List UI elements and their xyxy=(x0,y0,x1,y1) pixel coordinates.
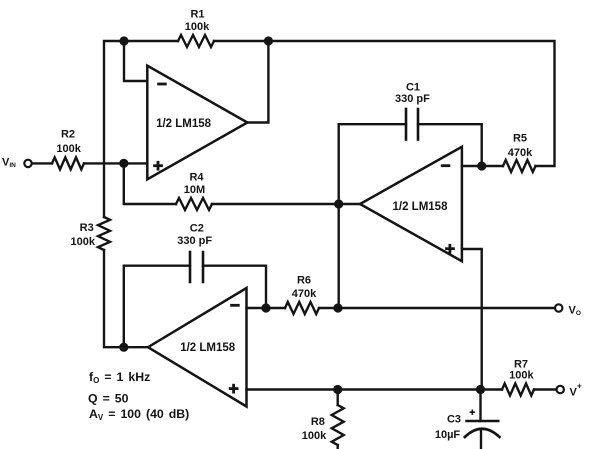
node: U3 output / C2 / R3 junction xyxy=(119,343,128,352)
wire: feedback vertical lower to U3 output xyxy=(104,250,148,347)
wire: C2 right lead down to R6 left node xyxy=(203,266,266,308)
resistor R7 xyxy=(502,384,534,396)
capacitor C1 xyxy=(406,109,418,140)
svg-text:C3: C3 xyxy=(447,413,461,425)
svg-text:1/2 LM158: 1/2 LM158 xyxy=(393,201,449,213)
wire: node A up to C1 left lead xyxy=(339,124,406,204)
svg-text:470k: 470k xyxy=(508,147,533,159)
svg-text:R3: R3 xyxy=(80,222,94,234)
wire: U1 output up to top wire xyxy=(247,41,268,123)
resistor R6 xyxy=(285,302,319,314)
wire: VIN terminal to R2 xyxy=(33,162,52,164)
U3 plus sign xyxy=(229,384,239,394)
svg-text:R2: R2 xyxy=(61,129,75,141)
wire: C3 bottom stub xyxy=(480,431,482,449)
wire: R8 bottom stub xyxy=(337,445,339,449)
wire: R8 top stub xyxy=(337,390,339,406)
resistor R1 xyxy=(178,35,214,47)
wire: C2 left lead and down to U3 output node xyxy=(124,266,190,348)
U1 plus sign xyxy=(153,161,163,171)
node: VIN / U1+ / R4 junction xyxy=(119,159,128,168)
terminal VIN xyxy=(24,160,31,167)
resistor R2 xyxy=(52,157,84,169)
U2 plus sign xyxy=(445,244,455,254)
wire: R7 to V+ terminal xyxy=(534,388,556,390)
wire: R5 left to U2 inverting input xyxy=(462,165,503,167)
op-amp U3 xyxy=(148,288,247,407)
terminal VO xyxy=(555,304,562,311)
resistor R3 xyxy=(98,217,110,250)
U2 minus sign xyxy=(441,164,451,167)
wire: C1 right lead down to U2 inverting node xyxy=(418,124,482,166)
terminal V+ xyxy=(557,386,564,393)
C3 polarity plus sign xyxy=(470,410,475,415)
wire: feedback vertical upper + top wire left segment xyxy=(104,41,178,217)
capacitor C3 top plate xyxy=(467,420,499,423)
node: C2 / R6 / U3 inverting junction xyxy=(261,303,270,312)
node: top wire left junction xyxy=(119,36,128,45)
wire: top wire right segment and right-side vertical down to R5 xyxy=(214,41,555,166)
capacitor C3 curved plate xyxy=(465,429,500,437)
wire: node A down to R6 output node xyxy=(338,204,340,308)
svg-text:100k: 100k xyxy=(185,21,210,33)
node: R8 / rail junction xyxy=(333,385,342,394)
svg-text:R8: R8 xyxy=(311,416,325,428)
svg-text:C1: C1 xyxy=(406,82,420,94)
svg-text:R4: R4 xyxy=(189,172,204,184)
svg-text:100k: 100k xyxy=(56,143,81,155)
wire: R2 to U1 non-inverting input xyxy=(84,162,147,164)
wire: U2 non-inverting input down to supply rail xyxy=(462,249,482,390)
svg-text:10M: 10M xyxy=(184,184,205,196)
wire: input node down and right to R4 xyxy=(124,163,176,204)
svg-text:330 pF: 330 pF xyxy=(395,93,430,105)
svg-text:R6: R6 xyxy=(297,274,311,286)
wire: rail node down to C3 xyxy=(479,390,481,422)
svg-text:R1: R1 xyxy=(190,8,204,20)
svg-text:Q = 50: Q = 50 xyxy=(88,391,129,405)
U1 minus sign xyxy=(157,83,167,86)
svg-text:10µF: 10µF xyxy=(435,429,461,441)
wire: U1 inverting input tap from top node xyxy=(124,41,147,81)
resistor R8 xyxy=(332,405,344,445)
svg-text:100k: 100k xyxy=(509,370,534,382)
svg-text:330 pF: 330 pF xyxy=(177,235,212,247)
svg-text:AV = 100 (40 dB): AV = 100 (40 dB) xyxy=(89,407,189,422)
svg-text:100k: 100k xyxy=(302,430,327,442)
resistor R5 xyxy=(503,160,536,172)
node: top wire right junction xyxy=(264,36,273,45)
svg-text:470k: 470k xyxy=(292,288,317,300)
node: C1 / R5 / U2 inverting junction xyxy=(477,161,486,170)
svg-text:100k: 100k xyxy=(71,236,96,248)
svg-text:1/2 LM158: 1/2 LM158 xyxy=(180,342,236,354)
wire: R4 right to U2 output apex xyxy=(212,203,360,205)
wire: U3 non-inverting input / bottom rail to R7 xyxy=(247,388,503,390)
op-amp U2 xyxy=(360,147,462,261)
node: R6 / VO line junction xyxy=(333,303,342,312)
node: U2+ / R7 / C3 rail junction xyxy=(476,385,485,394)
node: R4 / C1 / U2 output junction xyxy=(334,199,343,208)
svg-text:1/2 LM158: 1/2 LM158 xyxy=(156,118,212,130)
U3 minus sign xyxy=(230,304,240,307)
op-amp U1 xyxy=(147,66,247,180)
svg-text:R5: R5 xyxy=(513,133,527,145)
wire: R6 right to VO terminal xyxy=(319,307,554,309)
resistor R4 xyxy=(176,198,212,210)
svg-text:R7: R7 xyxy=(514,358,528,370)
svg-text:C2: C2 xyxy=(190,222,204,234)
wire: U3 inverting input to R6 xyxy=(247,307,286,309)
capacitor C2 xyxy=(190,252,203,282)
